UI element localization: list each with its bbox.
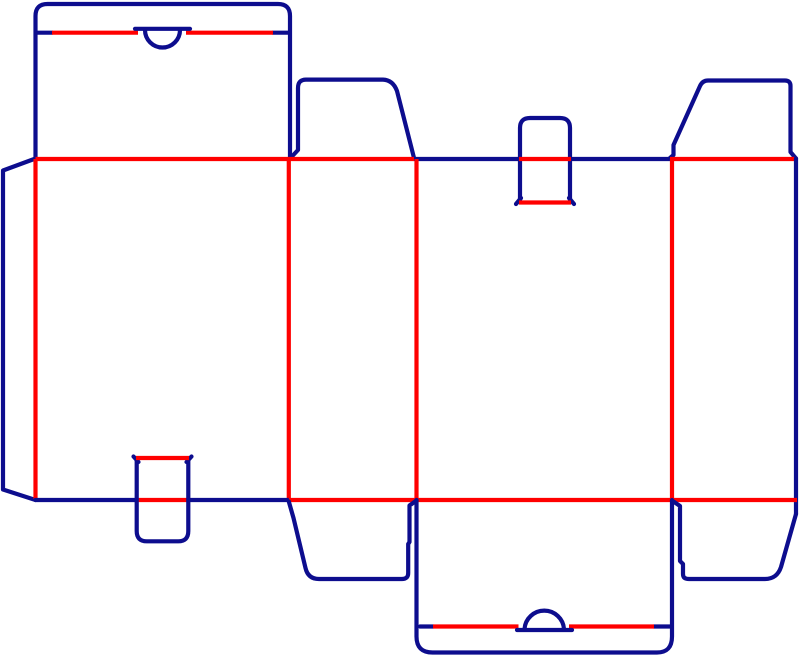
- bottom lid crease left stub (cut): [420, 624, 433, 628]
- dust flap below panel 2 (cut): [289, 501, 417, 580]
- bottom cut edge of panel 1 right segment: [188, 498, 289, 502]
- dust flap above panel 4 (cut): [670, 81, 796, 159]
- lid tuck crease (red): [52, 31, 273, 35]
- tuck-lock tab bottom (red): [519, 200, 571, 204]
- glue flap (cut): [3, 159, 36, 501]
- bottom lid crease (red): [433, 624, 654, 628]
- red crease through bottom tab: [137, 498, 188, 502]
- panel 2/3 divider crease (red vertical): [414, 159, 418, 499]
- bottom tuck-lock tab (cut): [134, 457, 192, 542]
- bottom lid thumb notch (cut): [517, 611, 572, 630]
- lid thumb notch (cut): [135, 29, 190, 48]
- lid tuck crease left stub (cut): [36, 31, 52, 35]
- dust flap below panel 4 (cut): [672, 501, 796, 580]
- panel 4 right cut edge: [794, 159, 798, 515]
- panel 1/2 divider crease (red vertical): [287, 159, 291, 500]
- glue flap fold crease (red vertical): [33, 159, 37, 499]
- bottom lid crease right stub (cut): [654, 624, 670, 628]
- main top crease (red) right portion: [670, 157, 797, 161]
- top cut edge of panel 3 left segment: [414, 157, 519, 161]
- top cut edge of panel 3 right segment: [571, 157, 670, 161]
- main bottom crease (red): [289, 498, 797, 502]
- lid tuck crease right stub (cut): [273, 31, 289, 35]
- main top crease (red) left portion: [36, 157, 415, 161]
- bottom tab top crease (red): [136, 456, 189, 460]
- dust flap above panel 2 (cut): [291, 80, 414, 158]
- bottom cut edge of panel 1 left segment: [36, 498, 138, 502]
- bottom lid panel (cut): [417, 500, 673, 653]
- tuck-lock tab crease (red): [519, 157, 571, 161]
- top lid panel outline (cut): [36, 4, 291, 158]
- panel 3/4 divider crease (red vertical): [670, 159, 674, 499]
- tuck-lock tab top (cut): [516, 118, 574, 204]
